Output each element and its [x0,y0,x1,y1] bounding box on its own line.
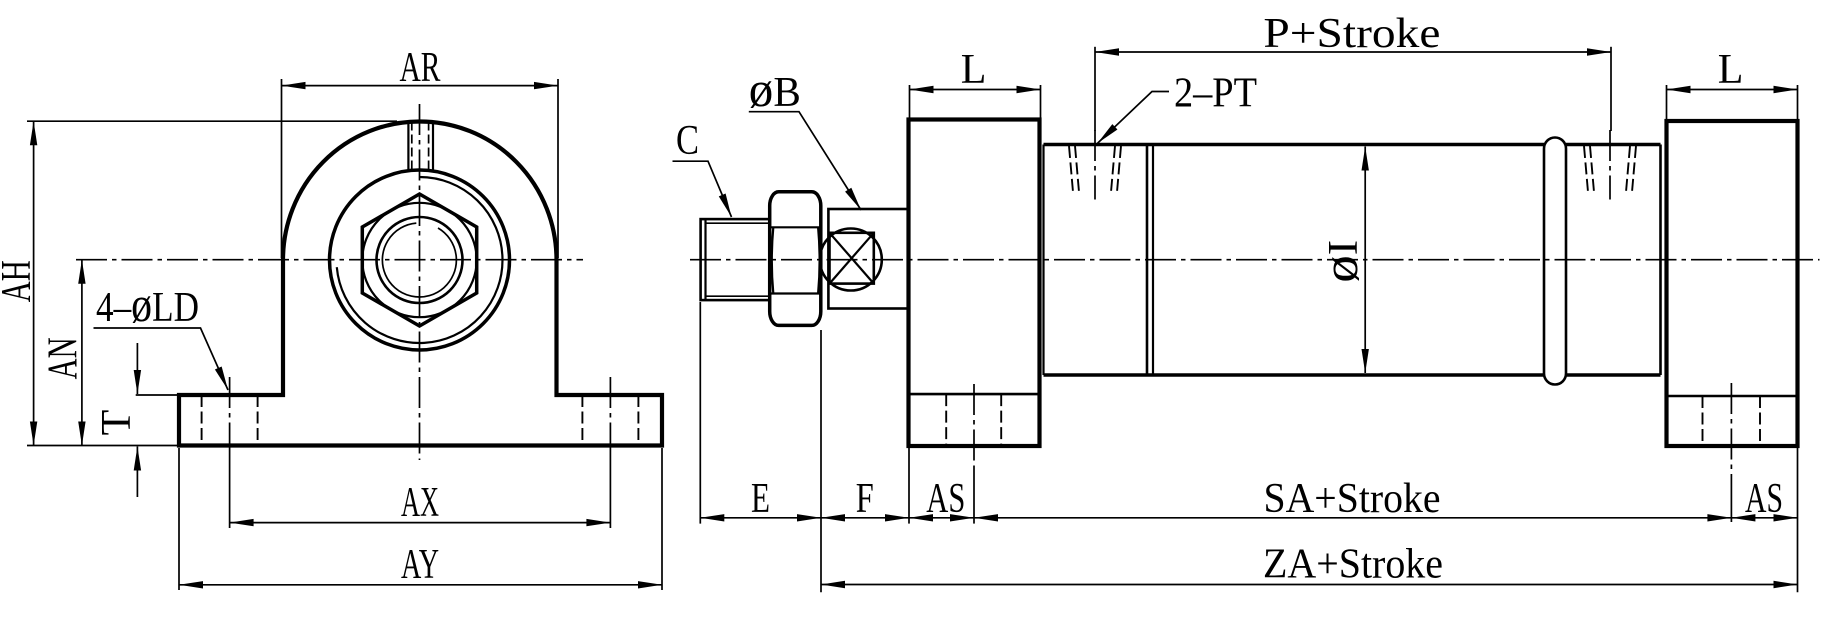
dimension T [136,394,179,396]
right foot hole hidden lines [1702,396,1704,446]
dimension AS right [1797,448,1799,592]
right trunnion block [1667,121,1798,446]
bottom extension line [27,445,179,447]
nut facet lines [771,226,821,228]
bore circle [377,217,463,303]
left port centerline [1094,130,1096,200]
right foot hole centerline [1730,383,1732,474]
base hole centerline left [229,377,231,452]
dimension ZA+Stroke [821,584,1798,586]
left port thread marks [1069,146,1073,192]
svg-text:SA+Stroke: SA+Stroke [1264,476,1441,522]
nut chamfer circle [362,203,476,317]
rod nut silhouette [770,192,821,326]
left foot hole centerline [973,384,975,467]
cushion ring band [1544,138,1566,385]
top slot hidden lines [411,122,413,172]
rod boss block [828,209,908,309]
svg-text:L: L [961,47,987,93]
base hole centerline right [609,377,611,452]
right trunnion foot line [1667,395,1798,398]
svg-text:øB: øB [749,61,801,117]
dimension SA+Stroke [1730,474,1732,522]
svg-text:AS: AS [926,476,965,522]
svg-text:AX: AX [401,480,439,526]
thread circle (with gap) [382,223,456,297]
base hole left hidden lines [201,395,203,446]
svg-text:E: E [751,476,770,522]
dimension L left [909,85,911,118]
svg-text:P+Stroke: P+Stroke [1263,11,1440,57]
thread minor lines [706,222,770,224]
cylinder left cap edge [1042,145,1044,376]
svg-text:AS: AS [1745,476,1783,522]
svg-text:T: T [94,410,140,436]
svg-text:F: F [856,476,874,522]
dimension AS left [973,467,975,524]
cylinder barrel top line [1044,143,1545,147]
rod end ball circle [820,229,882,291]
svg-text:4–øLD: 4–øLD [96,276,199,332]
right port centerline [1609,130,1611,200]
horizontal centerline [76,259,583,261]
svg-text:AN: AN [41,337,87,379]
svg-text:L: L [1718,47,1744,93]
dimension L right [1666,85,1668,119]
top slot solid edges [407,122,409,171]
dimension AN [81,260,83,446]
dimension F [908,448,910,524]
dimension E [699,302,701,524]
barrel joint double line [1146,145,1149,376]
dimension oI [1364,147,1366,374]
hex nut front [362,194,476,326]
dimension AR [281,79,283,258]
cylinder right end edge [1659,145,1662,376]
dimension AY [178,448,180,590]
boss chamfer arc (gap top-left) [337,177,503,343]
svg-text:2–PT: 2–PT [1174,71,1257,117]
base hole right hidden lines [581,395,583,446]
nut chamfer arcs [772,227,774,293]
dimension AH [27,120,397,122]
cylinder barrel bottom line [1044,373,1545,377]
boss outer circle [330,170,510,350]
svg-text:AR: AR [400,45,441,91]
svg-text:AY: AY [401,542,439,588]
right port thread marks [1584,146,1588,192]
vertical centerline [419,104,421,460]
dimension AX [229,452,231,528]
left trunnion foot line [909,393,1040,396]
bracket outline (dome + base plate) [179,121,662,445]
left trunnion block [909,120,1040,447]
main horizontal centerline [690,259,1820,261]
piston rod thread end [701,219,770,300]
left foot hole hidden lines [945,394,947,446]
svg-text:AH: AH [0,260,40,302]
rod chamfer line [704,219,706,300]
svg-text:C: C [676,118,699,164]
svg-text:øI: øI [1312,240,1368,283]
wrench-flat square with cross [830,233,874,284]
dimension P+Stroke [1094,47,1096,131]
svg-text:ZA+Stroke: ZA+Stroke [1263,542,1443,588]
